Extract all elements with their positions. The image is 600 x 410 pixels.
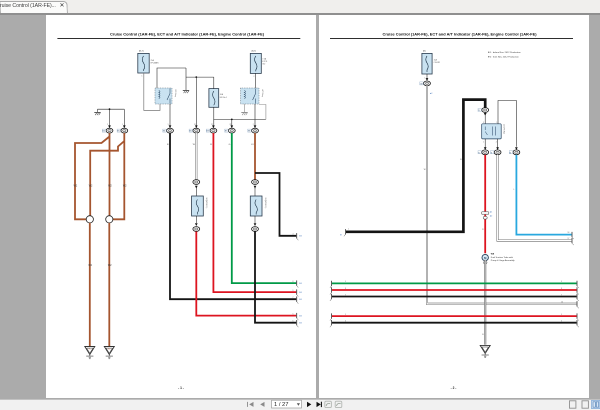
svg-text:IK4: IK4 [299,323,302,325]
svg-text:1: 1 [348,228,349,230]
svg-text:EC: EC [89,348,92,350]
svg-text:Fuel Suction Tube with: Fuel Suction Tube with [491,256,514,259]
svg-text:E6: E6 [189,131,191,133]
svg-text:4: 4 [496,142,497,144]
svg-text:6: 6 [293,321,294,323]
svg-text:E5: E5 [117,131,119,133]
svg-text:W2: W2 [88,264,92,267]
svg-text:IK4: IK4 [299,236,302,238]
svg-text:- 2 -: - 2 - [451,386,457,390]
svg-text:2: 2 [483,142,484,144]
svg-text:(B-T): (B-T) [139,51,144,53]
svg-text:1: 1 [425,78,426,80]
svg-text:22: 22 [211,124,213,126]
svg-text:- 1 -: - 1 - [178,386,184,390]
svg-text:IK4: IK4 [299,315,302,317]
svg-text:A/T Relay: A/T Relay [261,90,264,98]
svg-text:1: 1 [122,124,123,126]
svg-text:W2: W2 [108,264,112,267]
svg-text:3: 3 [483,122,484,124]
svg-text:✱2: ✱2 [430,92,432,95]
svg-text:B: B [167,144,169,146]
svg-text:IG2: IG2 [262,64,265,66]
svg-text:25A: 25A [151,59,155,62]
svg-text:EFI-MAIN: EFI-MAIN [151,61,160,64]
svg-text:✱1 : before Nov. 2012 Producti: ✱1 : before Nov. 2012 Production [488,51,521,54]
svg-text:1 / 27: 1 / 27 [274,402,289,408]
svg-text:17: 17 [568,238,570,240]
svg-text:(C/OPN Rly): (C/OPN Rly) [503,125,505,135]
svg-text:23: 23 [230,124,232,126]
svg-text:10A: 10A [220,93,224,96]
svg-text:W2: W2 [89,184,93,187]
svg-text:31: 31 [194,124,196,126]
svg-text:6: 6 [561,321,562,323]
svg-text:(B-T): (B-T) [252,51,257,53]
svg-text:I4: I4 [510,152,512,154]
svg-text:5: 5 [345,314,346,316]
svg-text:I19: I19 [420,83,423,85]
svg-text:I5: I5 [491,152,493,154]
svg-text:5: 5 [561,314,562,316]
svg-text:E4: E4 [103,131,105,133]
svg-text:W2: W2 [108,184,112,187]
svg-text:8: 8 [293,281,294,283]
svg-text:W2: W2 [123,184,127,187]
svg-text:9: 9 [561,281,562,283]
svg-text:Cruise Control (1AR-FE), ECT a: Cruise Control (1AR-FE), ECT and A/T Ind… [110,31,265,36]
svg-text:8: 8 [561,288,562,290]
svg-text:CIG-RR: CIG-RR [434,62,441,64]
svg-text:S9 (NOISE F.): S9 (NOISE F.) [264,198,266,209]
svg-text:W8: W8 [491,254,495,256]
svg-text:E8: E8 [248,131,250,133]
svg-text:IK4: IK4 [299,299,302,301]
svg-text:4: 4 [293,234,294,236]
svg-text:L3: L3 [251,144,254,146]
svg-text:7: 7 [561,294,562,296]
svg-text:9: 9 [293,290,294,292]
svg-text:I5: I5 [478,110,480,112]
svg-text:9: 9 [345,281,346,283]
svg-text:R: R [482,229,484,231]
svg-text:7: 7 [345,294,346,296]
svg-text:L: L [513,189,514,191]
svg-text:E8: E8 [207,131,209,133]
svg-text:IK4: IK4 [299,292,302,294]
svg-text:R: R [210,144,212,146]
svg-text:B: B [460,159,462,161]
svg-text:1: 1 [142,75,143,77]
svg-text:B: B [482,334,484,336]
svg-text:2: 2 [254,76,255,78]
svg-text:E7: E7 [225,131,227,133]
svg-text:✱1: ✱1 [490,211,492,214]
svg-text:7.5A: 7.5A [262,57,266,60]
svg-text:15A: 15A [434,59,438,62]
svg-text:✱2: ✱2 [490,214,492,217]
svg-text:(B): (B) [423,51,426,53]
svg-text:8: 8 [345,288,346,290]
svg-text:EFI No.1: EFI No.1 [220,97,227,99]
svg-text:W: W [193,144,196,146]
svg-text:2: 2 [253,124,254,126]
svg-text:Cruise Control (1AR-FE), ECT a: Cruise Control (1AR-FE), ECT and A/T Ind… [383,31,538,36]
svg-text:7: 7 [293,297,294,299]
svg-text:I5: I5 [478,152,480,154]
svg-text:S8 (NOISE F.): S8 (NOISE F.) [205,198,207,209]
svg-text:2: 2 [107,124,108,126]
svg-text:ED: ED [108,348,111,350]
svg-text:IK4: IK4 [299,283,302,285]
svg-text:W2: W2 [74,184,78,187]
svg-text:5: 5 [293,313,294,315]
svg-text:E6: E6 [163,131,165,133]
svg-text:W: W [424,169,426,171]
svg-text:5: 5 [168,124,169,126]
svg-text:18: 18 [568,232,570,234]
svg-text:EFI Relay: EFI Relay [174,90,176,98]
svg-text:IE: IE [340,235,342,237]
svg-text:6: 6 [345,321,346,323]
svg-text:16: 16 [561,302,563,304]
svg-text:G: G [229,144,231,146]
svg-text:Pump & Gage Assembly: Pump & Gage Assembly [491,259,516,262]
svg-text:✱2 : from Nov. 2012 Production: ✱2 : from Nov. 2012 Production [488,56,520,59]
